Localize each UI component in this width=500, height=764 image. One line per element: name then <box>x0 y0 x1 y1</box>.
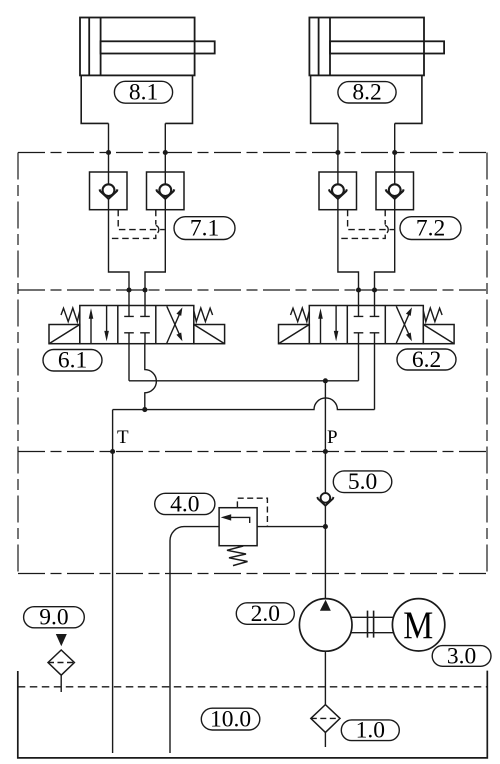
svg-text:6.1: 6.1 <box>58 348 87 374</box>
wire filter stem <box>324 732 326 747</box>
valve 6.1 right spring <box>194 308 213 322</box>
coupling bars <box>368 611 374 638</box>
valve 6.1 left spring <box>61 308 80 322</box>
label 7.1 <box>174 215 235 241</box>
enclosure boundary 3 (T-P line) <box>18 451 487 453</box>
relief valve 4.0 body <box>219 508 257 546</box>
svg-text:4.0: 4.0 <box>170 491 199 517</box>
motor M letter <box>403 604 433 647</box>
valve 6.2 left solenoid <box>279 325 310 344</box>
check valve 7.2b ball and seat <box>386 184 404 199</box>
enclosure boundary left <box>17 153 19 574</box>
svg-text:7.1: 7.1 <box>190 215 219 241</box>
svg-text:T: T <box>117 427 129 448</box>
check valve 7.2a body <box>319 172 357 210</box>
breather 9.0 stem <box>60 675 62 692</box>
wire cylinder 8.1 port A <box>109 123 130 305</box>
pilot line 7.2 hop arc <box>385 225 388 234</box>
svg-text:3.0: 3.0 <box>447 643 476 669</box>
cylinder 8.1 rod <box>101 41 215 53</box>
wire cylinder 8.1 port B <box>145 123 165 305</box>
valve 6.2 left box arrows <box>318 306 338 344</box>
svg-text:2.0: 2.0 <box>251 601 280 627</box>
wire T drop from valve 6.2 <box>374 344 376 410</box>
valve 6.2 right spring <box>423 308 442 322</box>
cylinder 8.2 body <box>309 18 424 76</box>
valve 6.1 right solenoid <box>194 325 225 344</box>
wire P drop from valve 6.2 <box>358 344 360 381</box>
directional valve 6.1 body <box>80 306 194 344</box>
filter 1.0 mesh line (dashed) <box>311 717 340 719</box>
label 7.2 <box>400 215 461 241</box>
pump 2.0 flow triangle <box>320 600 331 611</box>
check valve 7.1b body <box>147 172 185 210</box>
label 1.0 <box>341 718 399 744</box>
valve 6.1 left solenoid <box>49 325 80 344</box>
valve 6.1 right box crossed arrows <box>167 306 183 343</box>
wire cylinder 8.2 port A <box>338 123 359 305</box>
svg-text:10.0: 10.0 <box>210 706 251 732</box>
check valve 7.2b body <box>376 172 414 210</box>
filter 1.0 diamond <box>311 705 340 733</box>
pilot line 7.1 right with hop (dashed) <box>109 210 156 239</box>
svg-text:8.2: 8.2 <box>352 80 381 106</box>
wire pump riser (P line) <box>324 381 326 599</box>
enclosure boundary 2 <box>18 289 487 291</box>
breather 9.0 triangle <box>56 634 67 646</box>
pump 2.0 circle <box>299 599 352 652</box>
label 5.0 <box>333 469 392 495</box>
enclosure boundary top (manifold block) <box>18 152 487 154</box>
pilot line 7.1 hop arc <box>156 225 159 234</box>
relief valve 4.0 spring <box>227 546 248 566</box>
svg-text:P: P <box>327 427 338 448</box>
wire pump suction <box>324 651 326 705</box>
svg-text:6.2: 6.2 <box>412 347 441 373</box>
cylinder 8.1 mounting plate <box>81 75 192 123</box>
label 4.0 <box>155 491 215 517</box>
wire P manifold <box>129 380 359 382</box>
valve 6.2 right box crossed arrows <box>396 306 412 343</box>
label 6.2 <box>397 347 456 373</box>
wire cylinder 8.2 port B <box>375 123 395 305</box>
label 8.1 <box>114 80 172 106</box>
pilot line 7.2 right with hop (dashed) <box>338 210 385 239</box>
check valve 5.0 ball and seat <box>317 493 333 506</box>
breather 9.0 mesh line (dashed) <box>48 662 74 664</box>
enclosure boundary bottom <box>18 573 487 575</box>
label 9.0 <box>24 605 85 631</box>
label 6.1 <box>43 348 102 374</box>
cylinder 8.2 mounting plate <box>311 75 422 123</box>
check valve 7.1b ball and seat <box>156 184 174 199</box>
wire T drop from valve 6.1 with hop <box>145 344 157 410</box>
label 2.0 <box>236 601 294 627</box>
pilot line 7.1 left (dashed) <box>118 210 165 230</box>
enclosure boundary right <box>486 153 488 574</box>
label 8.2 <box>338 80 396 106</box>
relief valve 4.0 pilot line (dashed) <box>237 498 267 526</box>
breather 9.0 diamond <box>48 650 74 675</box>
label 10.0 <box>201 706 259 732</box>
cylinder 8.1 body <box>80 18 195 76</box>
wire P drop from valve 6.1 <box>128 344 130 381</box>
tank 10.0 outline <box>18 671 488 758</box>
relief valve 4.0 flow arrow <box>221 514 250 523</box>
svg-text:7.2: 7.2 <box>416 215 445 241</box>
check valve 7.1a body <box>90 172 128 210</box>
directional valve 6.2 body <box>309 306 423 344</box>
valve 6.1 left box arrows <box>89 306 109 344</box>
check valve 7.2a ball and seat <box>329 184 347 199</box>
valve 6.1 centre box blocked ports <box>124 306 150 344</box>
svg-text:1.0: 1.0 <box>356 718 385 744</box>
wire relief inlet from P <box>257 526 325 528</box>
valve 6.2 left spring <box>291 308 310 322</box>
check valve 7.1a ball and seat <box>100 184 118 199</box>
label 3.0 <box>432 643 491 669</box>
svg-text:8.1: 8.1 <box>129 80 158 106</box>
cylinder 8.2 piston lines <box>319 18 330 76</box>
pilot line 7.2 left (dashed) <box>348 210 395 230</box>
label T <box>117 427 129 448</box>
motor 3.0 circle <box>392 599 444 651</box>
wire T return to tank <box>112 410 114 753</box>
tank fluid level (dashed) <box>18 686 488 688</box>
svg-text:M: M <box>403 604 433 647</box>
svg-text:9.0: 9.0 <box>39 605 68 631</box>
shaft pump to motor <box>351 617 394 632</box>
valve 6.2 centre box blocked ports <box>354 306 380 344</box>
cylinder 8.2 rod <box>330 41 444 53</box>
label P <box>327 427 338 448</box>
svg-text:5.0: 5.0 <box>348 469 377 495</box>
wire relief discharge to tank <box>170 527 219 753</box>
wire T manifold with hop over pump riser <box>113 398 375 410</box>
cylinder 8.1 piston lines <box>89 18 100 76</box>
valve 6.2 right solenoid <box>423 325 454 344</box>
